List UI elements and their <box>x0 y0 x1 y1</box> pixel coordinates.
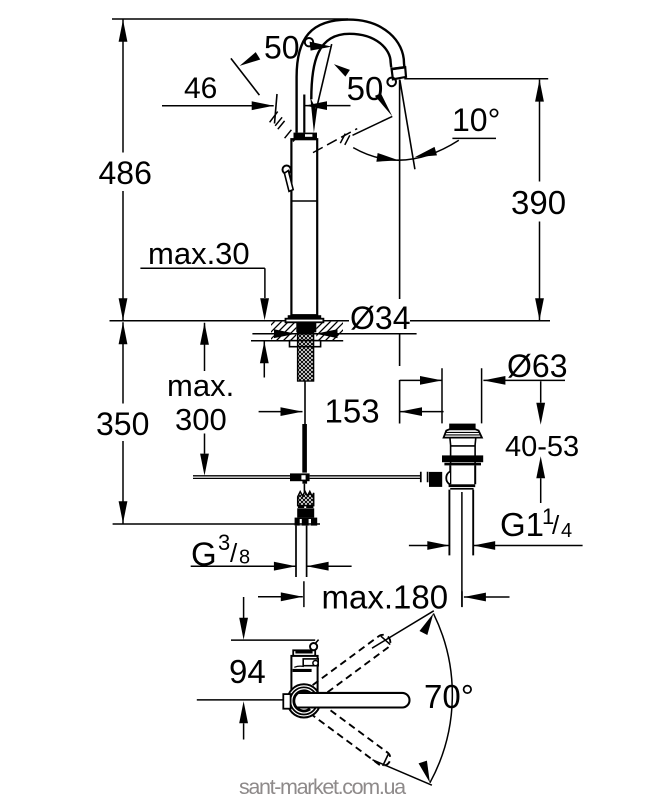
dim 486 line <box>112 19 348 320</box>
tilted spout wedge <box>310 98 317 133</box>
side lever ball <box>283 166 291 174</box>
svg-text:40-53: 40-53 <box>505 431 579 463</box>
dim 350 line <box>113 322 320 524</box>
svg-text:300: 300 <box>175 402 227 437</box>
faucet body <box>291 139 317 315</box>
spout outlet axis line <box>399 80 401 424</box>
46 extension tick <box>275 94 278 124</box>
deck hatching <box>255 321 352 341</box>
drain tailpipe <box>449 490 473 556</box>
svg-text:3: 3 <box>218 530 230 555</box>
body top cap <box>294 133 318 140</box>
svg-text:50: 50 <box>347 70 384 107</box>
right 50 arrow upper <box>334 64 350 77</box>
drain neck <box>450 438 476 465</box>
base flange ring <box>286 319 324 323</box>
clamp stub <box>303 484 305 492</box>
spout arch inner curve <box>311 34 391 100</box>
left 50 leader line <box>231 58 260 95</box>
inner ring thick <box>294 691 310 711</box>
spout tilt line 10deg <box>400 80 415 170</box>
valve bands <box>298 506 304 508</box>
svg-text:4: 4 <box>561 520 572 542</box>
rod connector block <box>429 472 442 487</box>
svg-text:max.: max. <box>167 368 234 403</box>
drain flange <box>444 429 482 437</box>
svg-text:50: 50 <box>264 30 300 66</box>
70 deg arc <box>430 613 452 782</box>
connector round side <box>446 472 450 485</box>
plan left tab <box>283 694 290 709</box>
dashed lever up <box>313 632 394 697</box>
spout nozzle collar <box>392 67 406 79</box>
svg-text:486: 486 <box>99 155 152 191</box>
left 50 arrow at circle <box>310 42 332 51</box>
clamp tab <box>302 481 307 484</box>
right 50 arrow lower <box>375 93 392 116</box>
side lever arm <box>284 171 293 192</box>
left swivel dash marks <box>270 112 296 142</box>
pop-up rod left <box>193 476 290 479</box>
spout riser outer wall and arch <box>297 20 405 133</box>
tilt line to 50 deg <box>316 44 332 110</box>
svg-text:G1: G1 <box>500 506 544 543</box>
pop-up rod right <box>310 476 421 479</box>
svg-text:390: 390 <box>511 184 566 221</box>
dashed lever down <box>313 704 394 769</box>
svg-text:70°: 70° <box>424 678 474 715</box>
solid lever <box>297 693 410 708</box>
svg-text:/: / <box>552 510 560 540</box>
svg-text:max.180: max.180 <box>322 579 449 616</box>
deck bottom line <box>251 340 343 342</box>
threaded shank <box>298 332 314 381</box>
nozzle joint line <box>391 67 406 69</box>
deck top line <box>110 320 551 322</box>
lever swing leader down <box>373 760 432 785</box>
rod end ticks <box>421 472 428 483</box>
rod clamp <box>290 473 310 481</box>
plan body <box>291 656 317 690</box>
svg-text:max.30: max.30 <box>148 236 250 271</box>
svg-text:350: 350 <box>96 406 149 442</box>
plan view: upper ext knob <box>310 643 317 650</box>
drain body <box>450 465 475 484</box>
svg-text:10°: 10° <box>452 102 500 138</box>
svg-text:Ø63: Ø63 <box>507 348 567 384</box>
valve nut <box>295 518 318 526</box>
svg-text:8: 8 <box>239 547 250 569</box>
drain body bands <box>449 484 476 487</box>
flexible hose <box>302 424 307 473</box>
svg-text:94: 94 <box>229 653 266 690</box>
right swivel dash line <box>313 129 357 153</box>
check valve crown <box>298 491 314 505</box>
svg-text:153: 153 <box>325 393 380 430</box>
G3/8 tails <box>296 526 307 577</box>
svg-text:sant-market.com.ua: sant-market.com.ua <box>239 775 406 799</box>
valve body block <box>297 508 314 517</box>
drain plug cap <box>449 424 475 430</box>
mounting nut <box>290 341 321 347</box>
svg-text:46: 46 <box>184 72 217 105</box>
drain locknut <box>442 455 483 462</box>
tailpipe center line <box>461 492 463 607</box>
spout riser inner wall <box>303 95 305 133</box>
lever swing leader up <box>372 611 434 648</box>
svg-text:Ø34: Ø34 <box>350 300 410 336</box>
supply pipe line <box>304 381 306 424</box>
plan spout stub <box>293 650 315 656</box>
svg-text:/: / <box>230 538 238 568</box>
base flange black band <box>288 315 322 319</box>
body joint line <box>291 200 317 202</box>
deck seal block <box>296 323 316 332</box>
plan swivel rings <box>287 684 320 717</box>
